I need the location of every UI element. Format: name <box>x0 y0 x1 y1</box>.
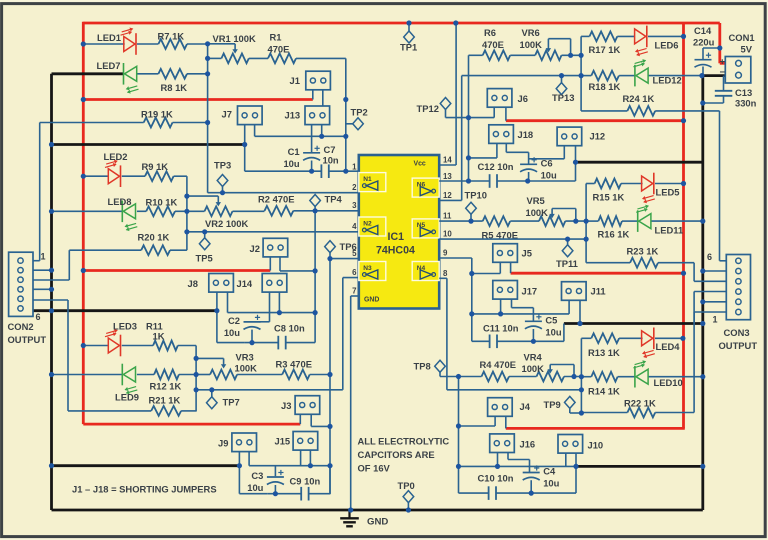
test point TP8 stub <box>439 372 441 377</box>
wire CON2 pin2 stub <box>33 269 52 271</box>
LED LED12 <box>633 59 681 86</box>
black wire CON2 pin6 row <box>33 309 217 312</box>
wire J17 left leg <box>500 299 502 314</box>
wire J7 right leg <box>254 125 256 137</box>
wire pin10 row <box>439 238 586 240</box>
wire R6 row leads <box>469 54 483 56</box>
wire junction (244.7,144.5) <box>242 142 247 147</box>
svg-text:C2: C2 <box>228 315 240 326</box>
wire R22 to CON3 pin3 <box>693 292 695 413</box>
LED LED8 <box>108 196 138 231</box>
svg-text:−: − <box>720 67 726 78</box>
capacitor C11 <box>490 335 497 349</box>
wire junction (455.8,23) <box>453 20 458 25</box>
wire C2C8 row <box>244 342 278 344</box>
svg-text:13: 13 <box>443 172 452 181</box>
svg-text:C10 10n: C10 10n <box>478 473 514 484</box>
capacitor C9 <box>301 487 308 501</box>
svg-text:TP5: TP5 <box>196 253 213 264</box>
wire junction (196.1,374.5) <box>194 372 199 377</box>
wire CON2 pin4 stub <box>33 288 52 290</box>
jumper J13 <box>285 106 330 125</box>
svg-text:R12 1K: R12 1K <box>150 381 182 392</box>
wire TP8 column <box>458 377 460 494</box>
capacitor C3 <box>247 470 284 493</box>
wire junction (702.8,466.4) <box>700 464 705 469</box>
wire junction (51.5,270.2) <box>49 268 54 273</box>
wire C10 row <box>459 492 489 494</box>
wire junction (330,465.7) <box>327 463 332 468</box>
svg-text:J11: J11 <box>591 286 606 297</box>
wire CON2 pin5 dropper <box>67 300 69 411</box>
svg-text:J8: J8 <box>188 278 198 289</box>
wire junction (702.8,323.5) <box>700 321 705 326</box>
potentiometer VR6 <box>520 27 571 60</box>
svg-text:5: 5 <box>352 249 357 258</box>
wire junction (207.6,43.8) <box>205 41 210 46</box>
note electrolytic capacitors <box>358 436 450 474</box>
connector CON1 <box>720 32 755 83</box>
wire J16 right leg <box>507 453 509 460</box>
test point TP12 stub <box>445 109 447 118</box>
wire C2 bottom lead <box>251 330 253 343</box>
wire J4 left leg <box>494 416 496 426</box>
svg-text:R1: R1 <box>270 32 282 43</box>
wire junction (531.2,493.1) <box>529 491 534 496</box>
black wire LED7 row <box>52 72 124 75</box>
test point TP9 <box>544 396 576 410</box>
wire junction (207.6,73.8) <box>205 71 210 76</box>
black wire J9 row <box>52 464 240 467</box>
svg-text:IC1: IC1 <box>388 231 405 243</box>
svg-text:C11 10n: C11 10n <box>483 323 519 334</box>
LED LED6 <box>635 26 679 57</box>
LED LED11 <box>636 205 683 236</box>
jumper J15 <box>275 432 318 451</box>
svg-text:R21 1K: R21 1K <box>149 395 181 406</box>
wire junction (330,426.4) <box>327 424 332 429</box>
wire junction (252,342.6) <box>249 340 254 345</box>
wire junction (702.8,301.8) <box>700 299 705 304</box>
wire junction (279.4,312.6) <box>277 310 282 315</box>
jumper J10 <box>558 435 603 454</box>
wire R18 lead <box>581 75 591 77</box>
wire R23 to CON3 pin4 <box>693 263 695 282</box>
potentiometer VR3 <box>196 352 257 380</box>
svg-text:TP1: TP1 <box>400 41 417 52</box>
jumper J8 <box>188 274 234 293</box>
black wire J7 row <box>52 143 245 146</box>
wire junction (186.9,196.1) <box>184 194 189 199</box>
wire R15 column <box>585 184 587 263</box>
svg-text:R2 470E: R2 470E <box>258 194 294 205</box>
svg-text:LED4: LED4 <box>656 341 681 352</box>
wire R24 row <box>581 110 627 112</box>
svg-text:3: 3 <box>352 201 357 210</box>
svg-text:11: 11 <box>443 212 452 221</box>
wire C1 bottom lead <box>311 161 313 172</box>
svg-text:330n: 330n <box>735 98 757 109</box>
wire junction (574,376.5) <box>571 374 576 379</box>
wire junction (468.5,157.9) <box>466 155 471 160</box>
wire J16 row <box>459 465 577 467</box>
wire pin13 row <box>439 180 490 182</box>
jumper J7 <box>222 106 263 125</box>
red wire J2 row <box>83 269 270 272</box>
svg-text:VR5: VR5 <box>527 195 545 206</box>
wire junction (222.5,192.7) <box>220 190 225 195</box>
wire junction (581.1,75.6) <box>579 73 584 78</box>
wire J2 legs <box>269 257 271 271</box>
wire R14 row <box>581 376 591 378</box>
svg-text:R13 1K: R13 1K <box>588 347 620 358</box>
wire R19 row <box>40 122 144 124</box>
wire pin4 row <box>187 231 359 233</box>
wire LED7 row blue <box>137 73 158 75</box>
wire junction (51.5,310.7) <box>49 308 54 313</box>
svg-text:R4 470E: R4 470E <box>480 359 516 370</box>
wire R20 row <box>69 249 141 251</box>
wire R22 row <box>581 412 627 414</box>
LED LED3 <box>105 321 137 357</box>
wire VR2 column <box>186 176 188 250</box>
wire junction (468.5,181) <box>466 178 471 183</box>
svg-text:TP13: TP13 <box>552 92 574 103</box>
wire pin3 row <box>293 210 359 212</box>
test point TP3 stub <box>222 187 224 193</box>
wire junction (239.4,465.7) <box>237 463 242 468</box>
red +5V rail top wire <box>83 22 720 25</box>
connector CON3 <box>707 252 757 351</box>
svg-text:R20 1K: R20 1K <box>138 232 170 243</box>
svg-text:TP2: TP2 <box>351 107 368 118</box>
svg-text:74HC04: 74HC04 <box>376 245 415 257</box>
wire junction (345.8,136.3) <box>343 134 348 139</box>
resistor R2 <box>258 194 294 216</box>
svg-text:VR2 100K: VR2 100K <box>205 218 248 229</box>
svg-text:10u: 10u <box>247 482 263 493</box>
svg-text:9: 9 <box>443 249 448 258</box>
wire junction (586.1,239.1) <box>584 237 589 242</box>
resistor R6 <box>482 27 510 60</box>
test point TP7 stub <box>211 390 213 398</box>
jumper J11 <box>562 282 606 301</box>
wire junction (83.3,270.5) <box>81 268 86 273</box>
inverter N4 <box>412 262 439 281</box>
jumper J6 <box>487 89 528 108</box>
wire C13 leads <box>723 76 725 91</box>
wire LED3 row <box>83 345 108 347</box>
wire pin5 row <box>330 258 359 260</box>
red wire J5 row <box>511 272 684 275</box>
capacitor C8 <box>278 336 285 350</box>
svg-text:ALL ELECTROLYTIC: ALL ELECTROLYTIC <box>358 436 450 447</box>
black wire J11 row <box>564 322 703 325</box>
inverter N3 <box>359 262 386 281</box>
wire J18 left leg <box>496 144 498 158</box>
svg-text:J6: J6 <box>518 93 528 104</box>
wire J9 left leg <box>238 452 240 494</box>
wire junction (500.6,313.9) <box>498 311 503 316</box>
test point TP12 <box>417 98 451 115</box>
LED LED4 <box>642 328 681 359</box>
svg-text:TP8: TP8 <box>414 361 431 372</box>
svg-text:LED9: LED9 <box>115 392 139 403</box>
wire VR1 row leads <box>208 57 222 59</box>
wire junction (51.5,374.5) <box>49 372 54 377</box>
wire VR2 to R2 <box>233 210 265 212</box>
resistor R10 <box>146 197 178 217</box>
wire junction (51.5,144.5) <box>49 142 54 147</box>
red wire to CON1 <box>718 23 721 63</box>
svg-text:N3: N3 <box>363 265 372 272</box>
wire LED9 row <box>52 374 123 376</box>
wire junction (575.5,162.2) <box>573 160 578 165</box>
wire CON2 pin3 riser <box>68 250 70 280</box>
wire junction (350.7,510) <box>348 507 353 512</box>
svg-text:J9: J9 <box>218 438 228 449</box>
wire R15 row <box>586 183 595 185</box>
resistor R3 <box>276 359 312 380</box>
svg-text:100K: 100K <box>520 39 543 50</box>
wire junction (458.5,376.5) <box>456 374 461 379</box>
wire junction (275.4,493.7) <box>273 491 278 496</box>
svg-text:1: 1 <box>41 252 46 262</box>
svg-text:R23 1K: R23 1K <box>627 246 659 257</box>
wire J5 row <box>472 273 501 275</box>
black wire J12 row <box>576 161 703 164</box>
wire pin3 vertical <box>314 211 316 313</box>
wire LED2 row <box>83 175 108 177</box>
wire pin7 ground elbow <box>351 295 359 297</box>
LED LED2 <box>104 151 128 187</box>
LED LED5 <box>642 173 680 204</box>
wire J17 right leg <box>511 299 513 308</box>
wire J18 right leg <box>505 144 507 153</box>
svg-text:C7: C7 <box>324 144 336 155</box>
svg-text:R14 1K: R14 1K <box>588 386 620 397</box>
wire junction (196.1,389.8) <box>194 387 199 392</box>
wire R17 row <box>581 35 589 37</box>
wire junction (311.6,171.2) <box>309 169 314 174</box>
wire C14 bottom lead <box>702 67 704 76</box>
black ground vertical left bus <box>50 74 53 510</box>
test point TP11 <box>556 245 578 269</box>
wire junction (51.5,289.3) <box>49 287 54 292</box>
svg-text:12: 12 <box>443 191 452 200</box>
svg-text:R22 1K: R22 1K <box>624 398 656 409</box>
svg-text:10u: 10u <box>224 327 240 338</box>
svg-text:TP4: TP4 <box>325 194 343 205</box>
svg-text:C12 10n: C12 10n <box>478 161 514 172</box>
svg-text:VR3: VR3 <box>236 352 254 363</box>
resistor R23 <box>627 246 659 268</box>
resistor R24 <box>623 93 656 116</box>
svg-text:R10 1K: R10 1K <box>146 197 178 208</box>
wire R17 column <box>580 36 582 111</box>
wire junction (575.8,221.1) <box>573 219 578 224</box>
potentiometer VR2 <box>187 196 249 229</box>
wire J17 row <box>472 313 569 315</box>
LED LED7 <box>97 60 139 94</box>
wire pin1 row <box>245 170 322 172</box>
wire J16 left leg <box>497 453 499 467</box>
wire junction (207.6,58.4) <box>205 56 210 61</box>
svg-text:J14: J14 <box>237 278 253 289</box>
wire R4 row <box>459 376 482 378</box>
svg-text:C3: C3 <box>251 470 263 481</box>
svg-text:J1: J1 <box>290 75 300 86</box>
test point TP13 stub <box>561 76 563 84</box>
test point TP10 <box>465 190 487 215</box>
red right vertical wire <box>682 23 685 428</box>
inverter N6 <box>412 178 439 197</box>
wire junction (83.3,345.5) <box>81 343 86 348</box>
wire CON3 pin1 stub <box>694 311 726 313</box>
jumper J18 <box>489 125 533 144</box>
resistor R18 <box>589 71 621 92</box>
resistor R19 <box>141 109 173 128</box>
svg-text:100K: 100K <box>522 363 545 374</box>
wire junction (409,23) <box>406 20 411 25</box>
wire junction (497.5,466.4) <box>495 464 500 469</box>
svg-text:R16 1K: R16 1K <box>598 229 630 240</box>
test point TP3 <box>214 160 231 187</box>
wire J12 right leg <box>575 146 577 162</box>
wire C4 bottom lead <box>530 480 532 493</box>
test point TP10 stub <box>470 214 472 221</box>
wire junction (51.5,211.3) <box>49 209 54 214</box>
svg-text:TP3: TP3 <box>214 160 231 171</box>
resistor R15 <box>593 179 625 203</box>
svg-text:10u: 10u <box>545 326 561 337</box>
wire junction (683.5,183.5) <box>681 181 686 186</box>
test point TP7 <box>207 397 240 409</box>
wire junction (533.4,341.3) <box>531 339 536 344</box>
svg-text:GND: GND <box>367 516 388 527</box>
svg-text:LED2: LED2 <box>104 151 128 162</box>
svg-text:6: 6 <box>352 268 357 277</box>
svg-text:C13: C13 <box>735 87 752 98</box>
svg-text:TP12: TP12 <box>417 103 439 114</box>
connector CON2 <box>8 252 47 346</box>
svg-text:OF 16V: OF 16V <box>358 463 391 474</box>
svg-text:100K: 100K <box>526 207 549 218</box>
svg-text:R3 470E: R3 470E <box>276 359 312 370</box>
ground symbol <box>340 510 388 527</box>
wire junction (408.4,510) <box>406 507 411 512</box>
black wire J10 row <box>576 465 703 468</box>
wire junction (315.1,270.9) <box>313 268 318 273</box>
wire R21 row <box>68 410 151 412</box>
jumper J14 <box>237 274 287 293</box>
svg-text:1K: 1K <box>153 330 165 341</box>
svg-text:8: 8 <box>443 269 448 278</box>
wire junction (310.4,465.7) <box>308 463 313 468</box>
wire pin12 riser <box>439 199 462 201</box>
wire CON3 pin5 stub <box>703 270 727 272</box>
test point TP1 stub <box>408 23 410 32</box>
wire VR4 to column <box>564 376 581 378</box>
svg-text:10: 10 <box>443 230 452 239</box>
jumper J17 <box>493 281 537 300</box>
svg-text:TP10: TP10 <box>465 190 487 201</box>
wire junction (330,258.6) <box>327 256 332 261</box>
LED LED1 <box>97 28 136 55</box>
wire VR1 column <box>207 44 209 193</box>
wire R23 row <box>586 262 630 264</box>
svg-text:C9 10n: C9 10n <box>290 476 321 487</box>
capacitor C1 <box>283 146 320 169</box>
wire pin9 elbow <box>439 257 472 259</box>
svg-text:C1: C1 <box>288 146 300 157</box>
wire J6 legs <box>493 107 495 117</box>
wire junction (527.7,181) <box>525 178 530 183</box>
svg-text:J3: J3 <box>281 400 291 411</box>
wire J11 right leg <box>579 300 581 323</box>
wire junction (683.5,36.4) <box>681 34 686 39</box>
wire R13 column <box>580 338 582 413</box>
svg-text:J10: J10 <box>588 440 604 451</box>
wire J3 legs <box>299 414 301 424</box>
resistor R20 <box>138 232 171 256</box>
svg-text:R8 1K: R8 1K <box>161 82 188 93</box>
wire junction (561.5,75.6) <box>559 73 564 78</box>
wire junction (683.5,120.7) <box>681 118 686 123</box>
wire pin8 elbow <box>439 277 447 279</box>
black bottom ground bus <box>52 509 703 512</box>
svg-text:J15: J15 <box>275 436 291 447</box>
wire junction (83.3,176.2) <box>81 174 86 179</box>
wire junction (211.8,389.8) <box>209 387 214 392</box>
wire junction (83.3,99.5) <box>81 97 86 102</box>
capacitor C2 <box>224 315 261 338</box>
wire R16 row <box>586 220 598 222</box>
wire J8 left leg <box>216 292 218 342</box>
test point TP6 stub <box>329 253 331 259</box>
capacitor C12 <box>490 174 497 188</box>
red wire J6 row <box>506 119 684 122</box>
test point TP4 stub <box>314 207 316 211</box>
svg-text:470E: 470E <box>268 43 290 54</box>
svg-text:J2: J2 <box>250 243 260 254</box>
wire junction (581.1,55.3) <box>579 53 584 58</box>
wire junction (471.8,313.9) <box>469 311 474 316</box>
capacitor C14 <box>693 25 715 67</box>
test point TP5 stub <box>204 232 206 238</box>
svg-text:LED11: LED11 <box>655 225 684 236</box>
capacitor C7 <box>321 164 328 178</box>
svg-text:LED6: LED6 <box>655 40 679 51</box>
inverter N5 <box>412 219 439 238</box>
inverter N2 <box>359 217 386 236</box>
svg-text:VR1 100K: VR1 100K <box>213 33 256 44</box>
svg-text:VR6: VR6 <box>522 27 540 38</box>
wire junction (719.8,48) <box>717 45 722 50</box>
resistor R5 <box>482 216 518 240</box>
wire junction (207.6,122.5) <box>205 120 210 125</box>
svg-text:Vcc: Vcc <box>414 161 426 168</box>
jumper J16 <box>490 434 535 453</box>
svg-text:VR4: VR4 <box>524 352 543 363</box>
wire junction (330,374.5) <box>327 372 332 377</box>
red wire J1 row <box>83 98 312 101</box>
test point TP6 <box>325 241 357 253</box>
wire junction (321.7,136.3) <box>319 134 324 139</box>
wire C14 top lead <box>703 47 720 49</box>
wire R6 column <box>468 55 470 181</box>
wire junction (567.6,239.1) <box>565 237 570 242</box>
